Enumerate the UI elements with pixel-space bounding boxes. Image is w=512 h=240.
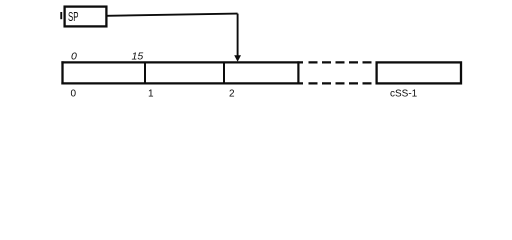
svg-text:0: 0 bbox=[71, 89, 77, 100]
divider cell0/cell1 bbox=[144, 62, 146, 83]
arrowhead into stack cell 2 bbox=[234, 55, 241, 62]
wire vertical down to stack bbox=[237, 14, 239, 57]
svg-text:2: 2 bbox=[229, 89, 235, 100]
dashed continuation bottom bbox=[309, 82, 373, 84]
last stack cell cSS-1 bbox=[377, 62, 461, 83]
svg-text:1: 1 bbox=[148, 89, 154, 100]
right edge of cell 2 bbox=[297, 61, 299, 84]
svg-text:SP: SP bbox=[68, 9, 79, 24]
tick mark left of SP box bbox=[60, 12, 62, 19]
svg-text:0: 0 bbox=[71, 51, 77, 63]
dashed continuation top bbox=[309, 61, 373, 63]
svg-text:15: 15 bbox=[132, 51, 144, 63]
wire horizontal from SP to arrow bbox=[107, 14, 238, 16]
svg-text:cSS-1: cSS-1 bbox=[390, 89, 418, 100]
register SP box bbox=[65, 7, 107, 27]
divider cell1/cell2 bbox=[223, 62, 225, 83]
stack array solid part: cells 0,1,2 bbox=[61, 61, 303, 84]
